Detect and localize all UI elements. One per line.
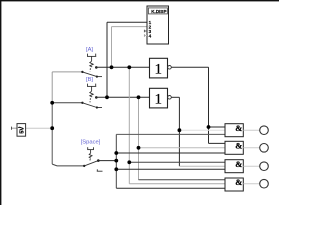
svg-text:&: & — [235, 159, 242, 169]
wire: enable bus vertical — [115, 134, 117, 188]
wire: gate U4 input1 (NOT-A) — [209, 126, 226, 128]
wire: gate U6 input1 (A) — [129, 161, 225, 163]
wire: net NOT-A vertical — [208, 67, 210, 143]
node: junction row B / net B vertical — [137, 95, 141, 99]
svg-text:1: 1 — [154, 61, 162, 77]
node: 5V stub end tick — [11, 127, 13, 130]
node: junction row A / net A vertical — [127, 65, 131, 69]
wire: space switch to enable bus — [98, 160, 116, 162]
node: junction net A / gate U6 input — [127, 160, 131, 164]
node: junction supply bus / switch B — [50, 101, 54, 105]
svg-text:[B]: [B] — [86, 77, 93, 83]
wire: gate U7 input2 (A) — [129, 183, 225, 185]
svg-text:[Space]: [Space] — [81, 140, 101, 146]
wire: net A vertical — [128, 67, 130, 183]
node: junction NOT-A / gate U4 input — [207, 125, 211, 129]
wire: gate U4 input3 (enable) — [116, 133, 225, 135]
wire: gate U6 input2 (NOT-B) — [179, 165, 225, 167]
node: switch A open contact — [96, 76, 98, 78]
switch SW2 [B] — [82, 84, 102, 108]
window border top — [0, 0, 279, 1]
node: junction supply bus / 5V source — [50, 126, 54, 130]
node: switch A left terminal — [81, 71, 83, 73]
node: junction enable bus / switch wire — [114, 159, 118, 163]
pin 4 stub — [144, 35, 147, 37]
pin 3 stub — [144, 30, 147, 32]
pin 3 stub tick — [143, 30, 145, 33]
indicator D4 — [260, 179, 269, 188]
node: junction row A / pin2 — [110, 65, 114, 69]
wire: net NOT-B vertical — [178, 97, 180, 166]
wire: 5V left stub — [12, 127, 18, 129]
svg-text:4: 4 — [149, 33, 152, 38]
wire: gate U7 input3 (enable) — [116, 187, 225, 189]
node: junction enable bus / gate U5 input — [114, 151, 118, 155]
wire: gate U5 input3 (enable) — [116, 152, 225, 154]
switch SW3 [Space] — [84, 147, 102, 171]
inverter U3 — [150, 88, 172, 108]
indicator D1 — [260, 126, 269, 135]
wire: switch B to inverter U3 input (row B) — [96, 96, 149, 98]
wire: gate U6 output — [243, 165, 259, 167]
node: junction NOT-B / gate U4 input — [178, 128, 182, 132]
wire: gate U6 input3 (enable) — [116, 168, 225, 170]
wire: display pin2 horizontal — [112, 26, 148, 28]
wire: gate U5 input2 (B) — [139, 147, 226, 149]
node: junction row B / pin1 — [105, 95, 109, 99]
wire: 5V source output to bus junction — [26, 127, 53, 129]
wire: gate U5 input1 (NOT-A) — [209, 142, 226, 144]
wire: switch A to inverter U2 input (row A) — [96, 66, 149, 68]
wire: net B vertical — [138, 97, 140, 179]
indicator D2 — [260, 144, 269, 153]
node: switch B open contact — [96, 106, 98, 108]
node: switch B right terminal — [95, 96, 98, 99]
node: switch B left terminal — [81, 102, 83, 104]
wire: gate U4 output — [243, 129, 259, 131]
wire: switch Space left lead — [52, 164, 84, 166]
svg-text:&: & — [235, 140, 242, 150]
wire: gate U4 input2 (NOT-B) — [179, 129, 225, 131]
inverter U2 — [150, 58, 172, 78]
window border left — [0, 0, 1, 205]
svg-text:&: & — [235, 177, 242, 187]
svg-text:&: & — [235, 123, 242, 133]
switch SW1 [A] — [82, 54, 102, 77]
AND gate U4 — [225, 123, 243, 137]
pin 4 stub tick — [143, 34, 145, 37]
wire: gate U5 output — [243, 147, 259, 149]
svg-text:K.DISP: K.DISP — [151, 9, 166, 14]
AND gate U6 — [225, 159, 243, 173]
wire: display pin1 vertical to row B — [106, 22, 108, 97]
wire: display pin1 horizontal — [107, 21, 147, 23]
svg-text:[A]: [A] — [86, 47, 93, 53]
node: switch Space right terminal — [97, 159, 100, 162]
wire: inverter U2 output horizontal — [171, 66, 208, 68]
wire: supply bus vertical upper (to switch A) — [51, 72, 53, 103]
AND gate U7 — [225, 177, 243, 191]
node: switch Space left terminal — [83, 165, 85, 167]
AND gate U5 — [225, 140, 243, 154]
svg-text:1: 1 — [154, 91, 162, 107]
wire: switch A left lead — [52, 71, 82, 73]
node: switch A right terminal — [95, 66, 98, 69]
node: junction enable bus / gate U6 input — [114, 167, 118, 171]
wire: display pin2 vertical to row A — [111, 27, 113, 68]
wire: supply bus vertical lower — [51, 103, 53, 164]
node: junction net B / gate U5 input — [137, 146, 141, 150]
indicator D3 — [260, 162, 269, 171]
wire: gate U7 output — [243, 183, 259, 185]
power source V1 5V box — [17, 124, 26, 137]
display U1 KDISP box — [147, 6, 169, 44]
svg-text:5V: 5V — [19, 127, 25, 134]
wire: inverter U3 output horizontal — [171, 96, 179, 98]
wire: switch B left lead — [52, 102, 82, 104]
wire: gate U7 input1 (B) — [139, 179, 226, 181]
